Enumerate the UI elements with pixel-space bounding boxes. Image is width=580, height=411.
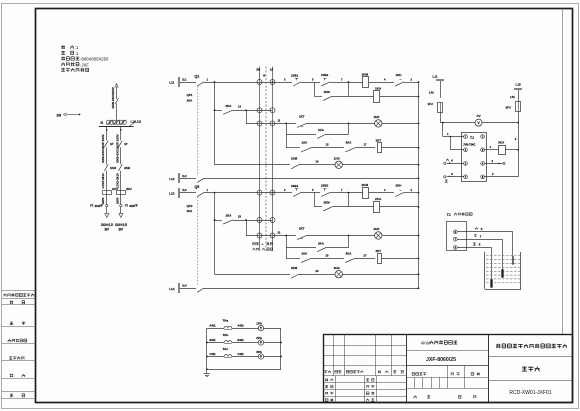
wire from terminal [273,123,297,125]
company 湖南荣尔输变电股份有限公司 [496,344,500,348]
svg-text:B421: B421 [238,338,245,342]
svg-text:2KT: 2KT [376,249,382,253]
left strip: drawing management table [2,290,36,292]
svg-text:L12: L12 [169,177,175,181]
label 日期 [10,394,14,397]
svg-text:220V: 220V [101,197,105,204]
wire [518,112,520,123]
svg-text:1L1: 1L1 [182,78,187,81]
selector contact 2SA [286,258,300,260]
wire [299,164,335,166]
terminals on strip row L2 [257,190,262,195]
seal-in contact 1KM [314,82,316,97]
共 张 第 张 [414,395,417,398]
water tank [484,252,486,289]
svg-text:TJ: TJ [447,213,451,217]
wire [311,147,344,149]
level relay contact 3KA [345,258,355,262]
relay contact 2KA parallel [286,236,288,259]
label 借(通)用件登记 [3,293,6,296]
svg-text:1HR: 1HR [374,115,381,119]
svg-text:TAa: TAa [223,319,229,323]
svg-text:1SA: 1SA [302,141,309,145]
svg-text:1KH: 1KH [396,73,402,77]
svg-text:1KA: 1KA [226,214,233,218]
svg-text:1KM: 1KM [291,157,298,161]
svg-text:PV: PV [477,114,481,118]
svg-text:TAc: TAc [223,347,229,351]
label 底图总号 [9,357,12,360]
svg-text:1FU: 1FU [428,102,433,106]
row 设 计/工 艺 [325,378,328,381]
svg-text:220V: 220V [115,197,119,204]
svg-text:4kW: 4kW [95,204,101,208]
pin 1 [464,135,468,139]
pin 2 [481,135,485,139]
sensor terminal box [447,222,467,251]
branch contactor 1KM [104,164,108,171]
breaker on incomer [115,98,119,104]
svg-text:2KT: 2KT [299,227,305,231]
cable labels 至4kW泵 [90,204,93,206]
breaker QF1 pole 2 [197,178,204,182]
drawing type 原理图 [522,367,527,371]
start button 1SB2 [321,82,330,86]
breaker QF2 pole 1 [197,192,204,196]
wire to bus [380,96,419,98]
svg-text:2SB1: 2SB1 [291,184,299,188]
svg-text:1HG: 1HG [334,156,341,160]
info text: 柜号/台数/外形尺寸/箱体型号/安装方式 [61,45,65,49]
wire [440,112,442,122]
wire to bus [404,82,419,84]
svg-text:1KM: 1KM [362,72,369,76]
left vertical bus [214,193,216,275]
svg-text:1A: 1A [270,68,273,72]
electrode probe high [513,257,514,265]
outgoing terminal [106,204,108,206]
svg-text:L51: L51 [510,95,515,99]
breaker QF1 pole 1 [197,82,204,86]
svg-text:2KM: 2KM [124,166,131,170]
voltmeter PV [440,122,475,124]
cable arrow [105,213,109,217]
wire [301,82,320,84]
svg-text:1KM: 1KM [324,90,331,94]
interlock contact 2KA [215,110,223,112]
svg-text:JYB-714C: JYB-714C [463,142,476,146]
svg-text:1P: 1P [110,142,114,146]
terminal strip dashed centreline [265,67,267,252]
sensor pin 8 [453,246,457,250]
timer coil 1KT [378,143,382,153]
sensor pin 6 [453,230,457,234]
label 旧底图总号 [8,339,11,342]
svg-text:2KH: 2KH [126,187,132,191]
row 审 核/日 期 [325,399,328,402]
branch breaker [104,141,108,148]
incomer spec text (vertical) [111,87,115,108]
start button 2SB2 [321,192,330,196]
wire [518,90,520,102]
svg-text:1PA: 1PA [256,322,262,326]
wire to bus [382,235,419,237]
svg-text:QF1: QF1 [187,93,193,97]
relay coil 2KA [374,202,380,213]
main bus [99,126,134,128]
seal-in contact 2KM [314,193,316,207]
green lamp 2HG [335,271,342,278]
terminal strip column 1 [259,67,261,252]
left vertical bus [214,82,216,165]
pin 5 [481,148,485,152]
svg-text:1W: 1W [256,68,260,72]
wire to bus [382,147,419,149]
svg-text:2KM: 2KM [362,183,369,187]
svg-text:NXB-63C16/3P 230V: NXB-63C16/3P 230V [101,134,105,162]
svg-text:JXF-8060/25: JXF-8060/25 [426,357,456,363]
red lamp 1HR [375,120,382,127]
svg-text:2KH: 2KH [396,183,402,187]
svg-text:CJX2-0910: CJX2-0910 [115,173,119,189]
svg-text:TJ: TJ [470,136,474,140]
wire L rail [204,82,292,84]
wire [307,235,375,237]
pin 8 [481,175,485,179]
inner margin line right [562,9,564,335]
pin 8 wire to node [485,176,519,178]
change-record grid [323,345,407,347]
probe wire low [457,247,491,249]
terminal strip column 2 [272,67,274,252]
CT right bus [280,328,282,369]
stop button 2SB1 [293,192,301,196]
svg-text:2PA: 2PA [256,336,262,340]
red lamp 2HR [375,232,382,239]
wire L rail [204,192,292,194]
electrode probe low [491,280,493,288]
aux contact 2KM for green lamp [215,274,291,276]
svg-text:1P: 1P [124,142,128,146]
svg-text:1KA: 1KA [375,87,382,91]
svg-text:Q5: Q5 [195,185,200,189]
outgoing terminal [120,204,122,206]
svg-text:2SB2: 2SB2 [321,183,329,187]
svg-text:2KM: 2KM [324,201,331,205]
wire to bus [382,123,419,125]
svg-text:3PA: 3PA [256,350,262,354]
pin 5 to relay coil 3KA [485,149,499,151]
level relay contact 3KA [345,148,355,152]
svg-text:1KM: 1KM [110,166,117,170]
ammeter 2PA [258,340,263,345]
branch breaker [119,141,123,148]
svg-text:N: N [263,74,265,78]
wire to bus [342,164,418,166]
svg-text::800X600X250: :800X600X250 [80,57,109,62]
wire [311,258,344,260]
timed contact 2KT [297,235,307,239]
pin 4 [464,148,468,152]
wire to coil [330,82,363,84]
svg-text:10A: 10A [187,209,193,213]
svg-text:1L3: 1L3 [182,189,187,192]
label 签字 [10,374,13,377]
relay coil 3KA [499,146,506,155]
svg-text:L41: L41 [429,91,434,95]
thermal contact 2KH [395,192,404,196]
terminal L11 [179,78,180,87]
pin 3 [464,162,468,166]
svg-text:1KA: 1KA [318,128,325,132]
wire [301,192,320,194]
right section lines [488,356,572,358]
svg-text:3KA: 3KA [346,141,353,145]
svg-text:2SA: 2SA [302,251,309,255]
pin 7 sensor input low [447,176,464,178]
cable arrow [119,213,123,217]
terminals on strip row L1 [257,80,262,85]
middle grid lines [407,350,488,352]
svg-text:L15: L15 [516,82,522,86]
ammeter 1PA [258,326,263,331]
terminal N2 [179,284,180,293]
svg-text:NXB-63C32/3P: NXB-63C32/3P [111,87,115,108]
header row 标记 处数 更改文件号 签字 日期 [324,371,327,374]
svg-text:2KM: 2KM [291,266,298,270]
svg-text:1KT: 1KT [376,139,382,143]
selector contact 1SA [286,147,300,149]
relay contact 1KA parallel [286,123,288,147]
svg-text::JXF: :JXF [80,62,89,67]
feeder branch at x=120.9 [120,127,122,140]
breaker QF2 pole 2 [197,288,204,292]
single-line diagram: incoming feeder [116,87,118,100]
pin 3 sensor input high [447,163,464,165]
wire to bus [342,274,418,276]
pin 7 [464,175,468,179]
stop button 1SB1 [293,82,301,86]
svg-text:2HG: 2HG [334,266,341,270]
interlock contact 1KA [215,220,223,222]
svg-text:3KA: 3KA [498,141,505,145]
breaker link dashed QF2 [197,197,199,287]
water level lines [486,255,520,257]
terminal strip footer text [253,243,256,245]
thermal contact 1KH [395,82,404,86]
timed contact 1KT [297,123,307,127]
svg-text:L11: L11 [432,75,437,79]
wire to coil [330,192,363,194]
svg-text:1L4: 1L4 [182,285,187,288]
feeder branch at x=106.8 [106,127,108,140]
svg-text:3X4+2.5: 3X4+2.5 [115,223,127,227]
svg-text:1L2: 1L2 [182,175,187,178]
CT left bus [206,328,208,369]
N rail wire [204,178,419,180]
title block outline [324,335,573,403]
svg-text:3KA: 3KA [346,251,353,255]
row 制 图/标 准 [325,385,328,387]
wire to bus [404,192,419,194]
electrode probe mid [502,270,504,278]
fuse 1FU [438,103,443,113]
svg-text:A421: A421 [238,324,245,328]
pin 6 [481,162,485,166]
terminal L12 [179,189,180,198]
green lamp 1HG [335,161,342,168]
svg-text:L13: L13 [169,191,175,195]
thermal relay 2KH [117,191,126,195]
feed wire to pins 1,4 [442,123,444,137]
wire [440,81,442,98]
svg-text:CJX2-0910: CJX2-0910 [101,173,105,189]
svg-text:B411: B411 [210,338,217,342]
svg-text:1KT: 1KT [299,115,305,119]
svg-text::1: :1 [75,51,79,56]
aux contact 1KM for green lamp [215,164,291,166]
svg-text:10A: 10A [187,98,193,102]
wire to bus [380,206,419,208]
probe wire high [457,231,513,233]
svg-text:4kW: 4kW [129,204,135,208]
wire [299,274,335,276]
CT bottom return [207,369,281,371]
wire [332,206,349,208]
svg-text:Q1: Q1 [195,75,200,79]
svg-text:TAb: TAb [223,333,229,337]
kWh metering circles on bus [106,120,110,124]
wire [355,147,375,149]
fuse 2FU [516,102,521,112]
svg-text:RCD-XW01-JXF01: RCD-XW01-JXF01 [509,390,551,396]
wire node 2 down right side [518,123,520,177]
wire [355,258,375,260]
wire [307,123,375,125]
svg-text::1: :1 [75,45,79,50]
label 借用 [10,301,13,304]
wire from terminal [273,235,297,237]
svg-text:2FU: 2FU [506,106,511,110]
ground symbol [206,369,208,373]
pin 6 spare [485,163,503,165]
ammeter 3PA [258,354,263,359]
thermal relay 1KH [103,191,112,195]
breaker link dashed QF1 [197,86,199,176]
wire to bus [382,258,419,260]
wire [332,96,349,98]
branch down to return terminal [246,220,248,236]
svg-text:2KA: 2KA [226,104,233,108]
contactor coil 2KM [363,188,369,199]
svg-text:L1(L11): L1(L11) [131,120,142,124]
N rail wire [204,288,419,290]
right neutral bus [418,82,420,288]
阶段标记 重量 比例 [412,372,414,375]
wire [369,192,394,194]
svg-text:2KA: 2KA [375,197,382,201]
svg-text:L14: L14 [169,287,175,291]
svg-text:L11: L11 [169,81,174,85]
svg-text:C421: C421 [238,352,245,356]
contactor coil 1KM [363,77,369,88]
row 校 对/批 准 [325,392,328,394]
svg-text:2HR: 2HR [374,227,381,231]
svg-text:1SB2: 1SB2 [321,73,329,77]
sensor pin 7 [453,237,457,241]
branch contactor 2KM [119,164,123,171]
terminal N1 [179,174,180,183]
svg-text:1SB1: 1SB1 [291,73,299,77]
svg-text:QF2: QF2 [187,204,193,208]
svg-text:3X4+2.5: 3X4+2.5 [101,223,113,227]
svg-text:+: + [262,242,264,246]
probe wire mid [457,239,502,241]
svg-text:C411: C411 [210,352,217,356]
svg-text:2KA: 2KA [318,242,325,246]
label 更改 [10,322,14,325]
svg-text:4KW: 4KW [421,341,430,346]
title block section dividers [406,335,408,403]
svg-text:NXB-63C16/3P 230V: NXB-63C16/3P 230V [115,134,119,162]
level relay block TJ JYB-714C [462,133,487,182]
timer coil 2KT [378,254,382,264]
svg-text:A411: A411 [210,324,217,328]
relay coil 1KA [374,91,380,103]
svg-text:2N: 2N [57,113,62,117]
wire [369,82,394,84]
branch down to return terminal [246,110,248,123]
